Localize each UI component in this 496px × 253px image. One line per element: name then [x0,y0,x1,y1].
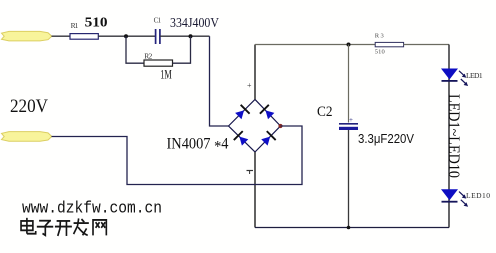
diode D2 upper-right (IN4007) [259,104,275,120]
svg-text:LED1: LED1 [466,71,483,80]
diode D3 lower-left (IN4007) [233,130,249,146]
diode D1 upper-left (IN4007) [234,104,250,120]
wire terminal J1 to R1 [52,35,71,37]
wire bridge bottom node down to bottom rail [254,152,256,228]
capacitor C2 top plate [339,123,358,125]
diode D4 lower-right (IN4007) [260,130,276,146]
capacitor C2 branch wire upper [348,45,350,123]
bridge arm lower-left wire [229,126,256,152]
svg-text:LED1~LED10: LED1~LED10 [445,94,462,178]
svg-text:R1: R1 [71,21,79,30]
wire node B corner down to bridge left [210,36,229,126]
svg-text:R2: R2 [144,51,152,60]
resistor R2 body [144,60,173,66]
resistor R1 body [70,34,98,40]
glyph zi [37,221,53,236]
svg-text:R3: R3 [375,33,384,40]
capacitor C1 plates [155,29,157,44]
bottom rail wire [255,227,449,229]
bridge arm lower-right wire [255,126,281,152]
svg-text:510: 510 [375,48,385,55]
svg-text:220V: 220V [10,96,48,117]
svg-text:3.3μF220V: 3.3μF220V [358,132,415,146]
right rail wire down [448,45,450,228]
svg-text:C1: C1 [154,17,162,25]
capacitor C2 branch wire lower [348,130,350,228]
svg-text:334J400V: 334J400V [170,16,219,31]
svg-text:+: + [349,116,353,124]
bridge right node junction dot [278,124,282,128]
wire R2 up to node B [173,36,191,63]
wire R3 to right rail corner [404,44,449,46]
svg-text:510: 510 [85,15,108,30]
bridge arm upper-right wire [255,99,281,126]
glyph dian [21,218,36,234]
wire R1 to node A [98,35,155,37]
glyph fa [74,218,89,235]
LED1 [441,69,468,87]
svg-text:C2: C2 [317,104,333,120]
svg-text:www.dzkfw.com.cn: www.dzkfw.com.cn [22,200,162,219]
svg-text:1M: 1M [160,67,172,82]
node A junction dot [124,34,128,38]
wire bridge top node up [254,45,256,100]
bridge minus node mark [247,170,254,172]
label dianzi kaifa wang (Chinese) drawn glyphs [21,218,106,236]
node C2-top junction dot [347,43,351,47]
wire node A down to R2 [126,36,144,63]
terminal J2 (220V input bottom) [2,132,52,142]
wire C1 to node B and corner [160,35,210,37]
LED10 [441,189,468,207]
svg-text:+: + [247,81,252,90]
svg-text:LED10: LED10 [466,191,490,200]
node B junction dot [189,34,193,38]
node C2-bottom junction dot [347,226,351,230]
glyph wang [93,220,106,235]
svg-text:IN4007 *4: IN4007 *4 [167,135,229,155]
resistor R3 body [375,42,403,46]
bridge arm upper-left wire [229,99,256,126]
terminal J1 (220V input top) [2,31,52,41]
glyph kai [55,221,72,236]
wire top rail to R3 [255,44,375,46]
capacitor C2 bottom plate [339,127,358,130]
wire terminal J2 to bridge right node [52,126,303,185]
